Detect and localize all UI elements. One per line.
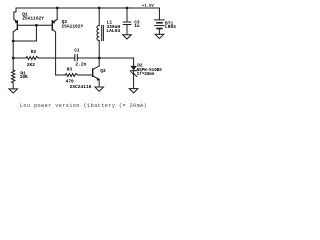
svg-text:1u: 1u [134,23,140,29]
ground (D2) [129,89,138,93]
transistor Q1 [13,19,17,32]
wire Q1-Q2 base [17,24,52,26]
wire +1.5V top rail [16,7,159,9]
svg-text:2SA1162Y: 2SA1162Y [22,16,44,22]
svg-text:Q3: Q3 [100,68,106,74]
svg-text:R3: R3 [67,66,73,72]
node L1/Q3 collector dot [98,57,101,60]
wire Q2 collector down [56,32,66,75]
svg-text:C1: C1 [74,47,80,53]
resistor R2 [26,57,39,60]
resistor R3 [65,74,92,77]
svg-text:If=20mA: If=20mA [137,72,155,77]
ground (Q3) [95,87,104,91]
resistor R1 [12,70,15,89]
node base junction dot [35,24,38,27]
ground (BT1) [155,34,164,38]
LED D2 [130,66,137,89]
svg-text:LAL04: LAL04 [106,28,120,34]
label 2K2 [27,62,35,68]
svg-text:D2: D2 [137,63,143,69]
wire jog from rail to Q1 emitter [14,8,16,19]
svg-text:2SA1162Y: 2SA1162Y [61,24,83,30]
node L1 top dot [98,7,101,10]
node collector loop dot [12,40,15,43]
ground (R1) [9,89,18,93]
svg-text:+1.5V: +1.5V [142,5,155,9]
label L1 330uH LAL04 [106,20,120,35]
battery BT1 [155,8,165,34]
label C3 1u [134,19,140,29]
node +1.5V label [142,5,155,9]
label Q1 2SA1162Y [22,11,44,21]
wire LED branch [133,58,135,66]
svg-text:2.2n: 2.2n [75,62,86,68]
transistor Q3 [93,58,100,87]
svg-text:Lou power version (1battery (=: Lou power version (1battery (= 20mA) [20,103,147,109]
label R1 10K [20,70,28,80]
svg-text:10K: 10K [20,74,28,80]
wire Q2 emitter [53,8,58,22]
label R3 [67,66,73,72]
svg-text:470: 470 [66,79,74,85]
svg-text:LR03: LR03 [165,24,176,30]
label Q3 [100,68,106,74]
svg-text:2SC2411K: 2SC2411K [70,84,92,90]
node R1/R2 junction dot [12,57,15,60]
label R2 [31,49,37,55]
svg-text:R2: R2 [31,49,37,55]
wire left rail Q1 collector down [12,32,14,70]
label D2 NSPW-510BS If=20mA [137,63,163,78]
caption text [20,103,147,109]
label 2.2n [75,62,86,68]
transistor Q2 [52,20,55,32]
node Q2 emitter dot [56,7,59,10]
label 2SC2411K [70,84,92,90]
label BT1 LR03 [165,20,176,30]
label 470 [66,79,74,85]
node C3 top dot [126,7,129,10]
ground (C3) [123,35,132,39]
wire base-collector loop [13,25,36,41]
inductor L1 [97,8,104,58]
svg-text:NSPW-510BS: NSPW-510BS [137,69,163,73]
wire R2 to C1 [13,57,75,59]
capacitor C3 [123,8,131,35]
capacitor C1 [75,55,134,61]
label Q2 2SA1162Y [61,19,83,29]
svg-text:2K2: 2K2 [27,62,35,68]
label C1 [74,47,80,53]
